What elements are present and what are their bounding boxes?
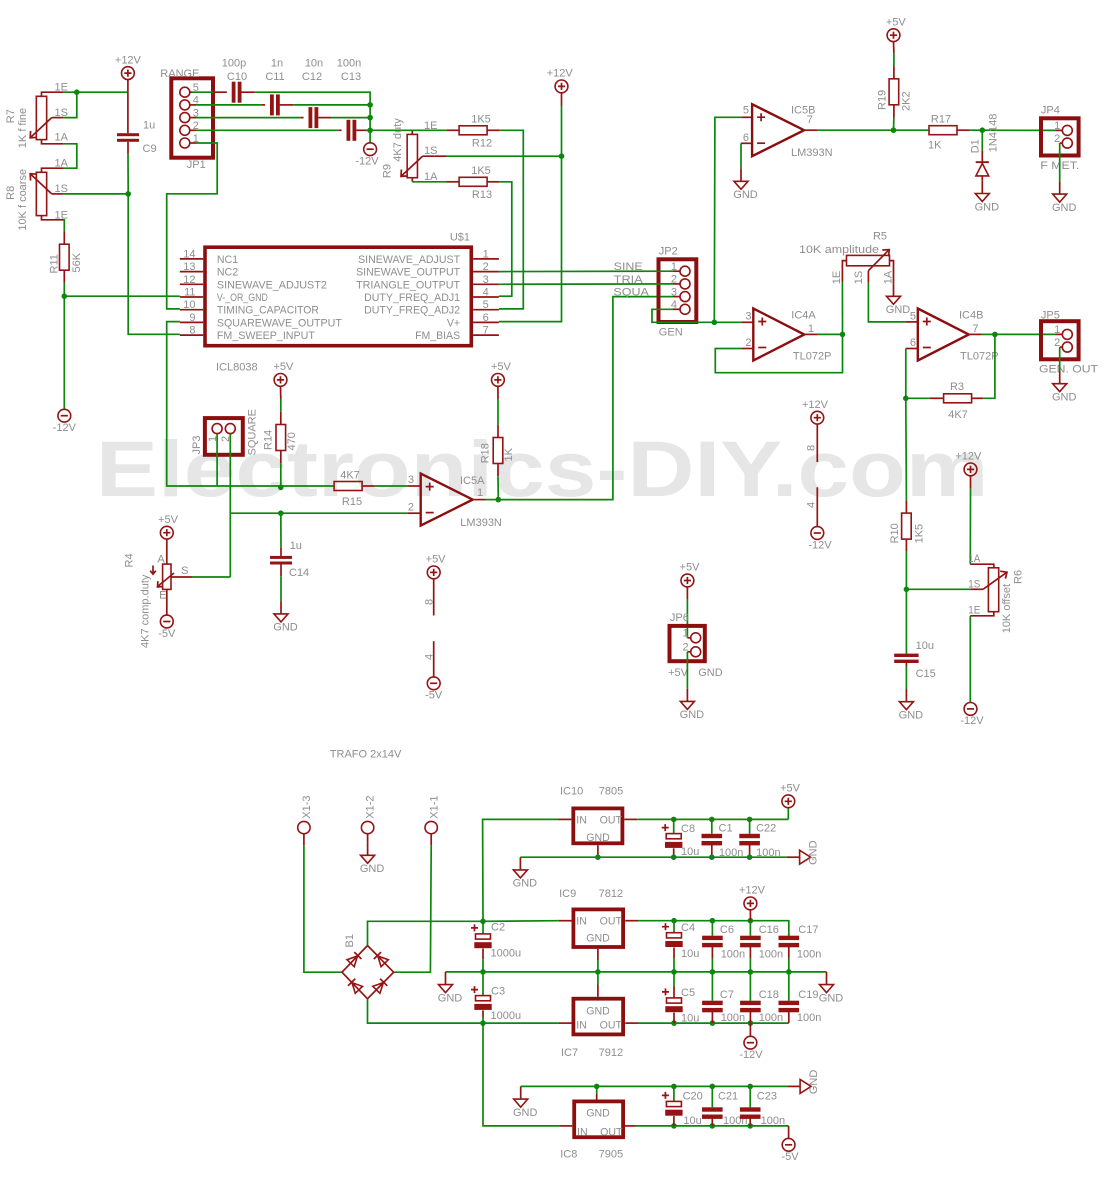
node junction GEN <box>712 320 718 326</box>
svg-text:IC7: IC7 <box>561 1047 578 1059</box>
JP2 pad pin 4 <box>680 304 690 314</box>
capacitor C3 1000u <box>482 972 484 996</box>
connector JP4 F MET. <box>1041 118 1079 155</box>
svg-text:+5V: +5V <box>426 554 447 566</box>
svg-text:FM_SWEEP_INPUT: FM_SWEEP_INPUT <box>217 330 316 342</box>
svg-text:JP3: JP3 <box>191 436 203 455</box>
B1 diode minus-AC2 <box>373 979 387 993</box>
svg-text:3: 3 <box>483 274 489 286</box>
svg-text:SINE: SINE <box>614 261 643 273</box>
svg-text:R11: R11 <box>49 254 61 273</box>
resistor R14 470 <box>280 386 282 399</box>
svg-text:+12V: +12V <box>547 68 574 80</box>
capacitor C2 1000u <box>482 921 484 934</box>
wire C11 to -12V rail <box>293 104 370 106</box>
svg-text:+12V: +12V <box>739 885 766 897</box>
svg-text:10K offset: 10K offset <box>1001 584 1013 633</box>
watermark Electronics-DIY.com <box>96 425 988 513</box>
wire R4-S to JP3 pin2 rail <box>192 576 230 578</box>
node junction C3 bottom <box>480 1020 486 1026</box>
JP3 pad pin 2 <box>225 424 235 434</box>
B1 diode AC1-plus <box>347 952 361 967</box>
ground GND (IC8 rail left) <box>520 1086 522 1099</box>
svg-text:-12V: -12V <box>960 715 984 727</box>
svg-text:1u: 1u <box>290 540 302 552</box>
JP1 pin 2 wire to C13 <box>190 129 196 131</box>
svg-text:GND: GND <box>586 832 610 844</box>
svg-text:1N4148: 1N4148 <box>987 114 999 153</box>
svg-text:100n: 100n <box>721 1012 745 1024</box>
svg-text:GND: GND <box>680 709 705 721</box>
potentiometer R5 10K amplitude <box>842 261 846 282</box>
connector JP6 <box>686 600 688 638</box>
node junction R10/R6-1S/C15 <box>904 587 910 593</box>
svg-text:R4: R4 <box>124 553 136 567</box>
svg-text:1: 1 <box>1054 324 1060 336</box>
svg-text:C6: C6 <box>720 924 734 936</box>
resistor R13 1K5 <box>447 181 460 183</box>
U$1 pin 5 DUTY_FREQ_ADJ2 <box>473 309 499 311</box>
capacitor C8 10u <box>671 817 677 823</box>
svg-text:A: A <box>157 554 165 566</box>
capacitor C16 100n <box>749 921 751 936</box>
svg-text:4: 4 <box>806 502 818 508</box>
bridge rectifier B1 body <box>342 946 394 999</box>
capacitor C7 100n <box>710 1020 716 1026</box>
connector JP1 RANGE <box>171 78 213 157</box>
JP1 pad pin 2 <box>180 125 190 135</box>
svg-text:1: 1 <box>1054 120 1060 132</box>
svg-text:C22: C22 <box>756 822 776 834</box>
svg-text:D1: D1 <box>970 139 982 153</box>
svg-text:GND: GND <box>1052 392 1077 404</box>
svg-text:GND: GND <box>360 863 385 875</box>
capacitor C9 1u <box>127 92 129 133</box>
svg-text:RANGE: RANGE <box>160 68 199 80</box>
wire R9-1A to R13 <box>412 181 446 183</box>
svg-text:1: 1 <box>477 487 483 499</box>
svg-text:1E: 1E <box>55 210 68 222</box>
wire D1 node to JP4 pin 1 <box>982 129 1055 131</box>
svg-text:C14: C14 <box>289 567 309 579</box>
U$1 pin 12 SINEWAVE_ADJUST2 <box>180 283 203 285</box>
svg-text:-5V: -5V <box>425 690 443 702</box>
svg-text:1K5: 1K5 <box>471 165 491 177</box>
svg-text:JP2: JP2 <box>659 246 678 258</box>
svg-text:SINEWAVE_ADJUST: SINEWAVE_ADJUST <box>358 254 461 266</box>
svg-text:2: 2 <box>745 337 751 349</box>
wire IC5B out to R17 <box>894 129 930 131</box>
svg-text:+5V: +5V <box>780 783 801 795</box>
power +5V (IC5 supply pin 8) <box>427 566 440 579</box>
svg-text:TRAFO 2x14V: TRAFO 2x14V <box>330 748 402 760</box>
wire R8-1S to C9 node <box>64 193 128 195</box>
svg-text:5: 5 <box>910 310 916 322</box>
svg-text:C12: C12 <box>302 71 322 83</box>
wire R7-1A to R8-1A <box>64 144 77 168</box>
JP1 pin 1 wire down to U$1 pin 10 net <box>190 142 196 144</box>
ground GND (IC10 rail left) <box>519 857 521 870</box>
svg-text:C20: C20 <box>683 1091 703 1103</box>
wire IC7 OUT to -12V and caps <box>638 1022 789 1024</box>
svg-text:100n: 100n <box>761 1115 785 1127</box>
svg-text:LM393N: LM393N <box>460 517 502 529</box>
ground GND (C15) <box>905 689 907 702</box>
svg-text:8: 8 <box>189 325 195 337</box>
svg-text:SQUAREWAVE_OUTPUT: SQUAREWAVE_OUTPUT <box>217 317 343 329</box>
IC9 IN pin <box>559 920 572 922</box>
capacitor C14 1u <box>280 513 282 547</box>
svg-text:4: 4 <box>424 654 436 660</box>
svg-text:GND: GND <box>886 304 911 316</box>
wire junction crossing to 486 rail <box>280 486 282 487</box>
power +12V (supply output) <box>748 918 754 924</box>
svg-text:100n: 100n <box>337 57 361 69</box>
U$1 pin 4 DUTY_FREQ_ADJ1 <box>473 296 499 298</box>
ground GND (R5-1A) <box>893 284 895 297</box>
svg-text:4K7: 4K7 <box>948 409 968 421</box>
svg-text:+5V: +5V <box>158 514 179 526</box>
resistor R15 4K7 <box>333 485 334 487</box>
JP1 pad pin 5 <box>180 87 190 97</box>
svg-text:NC2: NC2 <box>217 267 238 279</box>
wire square rail to R15 <box>217 485 333 487</box>
capacitor C18 100n <box>748 1020 754 1026</box>
svg-text:4: 4 <box>483 287 489 299</box>
svg-text:6: 6 <box>910 337 916 349</box>
svg-text:C15: C15 <box>916 668 936 680</box>
diode D1 1N4148 <box>981 130 983 150</box>
regulator IC7 7912 <box>573 999 623 1035</box>
svg-text:R13: R13 <box>472 189 492 201</box>
wire C10 to -12V corner <box>255 92 370 105</box>
U$1 pin 9 SQUAREWAVE_OUTPUT <box>180 321 203 323</box>
svg-text:470: 470 <box>286 432 298 450</box>
capacitor C1 100n <box>709 817 715 823</box>
capacitor C13 100n <box>338 129 341 131</box>
power +5V (supply output) <box>787 808 789 820</box>
svg-text:+5V: +5V <box>886 16 907 28</box>
ground GND (C14) <box>280 601 282 614</box>
wire GEN node to IC4A pin 3 <box>714 321 741 323</box>
svg-text:C18: C18 <box>759 989 779 1001</box>
svg-text:C3: C3 <box>491 985 505 997</box>
power -12V (bottom left) <box>63 408 65 410</box>
node junction C11/-12V rail <box>367 102 373 108</box>
power +12V (R6) <box>964 463 977 476</box>
JP6 pad pin 1 <box>691 633 701 643</box>
svg-text:C10: C10 <box>227 71 247 83</box>
svg-text:TRIANGLE_OUTPUT: TRIANGLE_OUTPUT <box>356 279 461 291</box>
IC8 GND rail <box>521 1085 788 1087</box>
svg-text:1S: 1S <box>55 107 68 119</box>
svg-text:1K f fine: 1K f fine <box>17 108 29 148</box>
node junction R11/-12V <box>62 293 68 299</box>
svg-text:GND: GND <box>586 1006 610 1018</box>
wire B1 plus output to C2/IC9 <box>368 921 559 946</box>
svg-text:IN: IN <box>576 814 587 826</box>
power -12V (C10-C13) <box>364 143 377 156</box>
B1 diode AC2-plus <box>374 952 388 967</box>
svg-text:GND: GND <box>586 933 610 945</box>
node junction R3/IC4B- <box>903 396 909 402</box>
capacitor C22 100n <box>747 817 753 823</box>
svg-text:5: 5 <box>483 299 489 311</box>
svg-text:7: 7 <box>483 325 489 337</box>
svg-text:10u: 10u <box>916 640 934 652</box>
power +5V (R19) <box>887 29 900 42</box>
svg-text:TL072P: TL072P <box>793 351 832 363</box>
svg-text:C1: C1 <box>719 822 733 834</box>
potentiometer R8 10K f coarse <box>42 168 64 172</box>
svg-text:C4: C4 <box>681 922 695 934</box>
wire U$1 pin2 SINE to JP2 pin 1 <box>499 270 673 272</box>
capacitor C20 10u <box>671 1123 677 1129</box>
power +12V (top left) <box>122 67 135 80</box>
wire JP3 pin1 down to square rail <box>216 434 218 486</box>
mid GND rail <box>446 971 827 973</box>
node junction R14/square rail <box>278 485 284 491</box>
capacitor C21 100n <box>710 1123 716 1129</box>
power +5V (R4) <box>160 526 173 539</box>
power -12V (IC4 supply pin 4) <box>816 487 818 526</box>
wire R8-1E down to R11 <box>63 220 66 232</box>
svg-text:-5V: -5V <box>158 628 176 640</box>
JP6 pin 2 wire to GND <box>687 651 690 653</box>
svg-text:4K7 comp.duty: 4K7 comp.duty <box>140 574 152 648</box>
svg-text:100n: 100n <box>721 949 745 961</box>
svg-text:V+: V+ <box>447 317 460 329</box>
B1 diode minus-AC1 <box>348 979 362 994</box>
power -5V (IC5 supply pin 4) <box>433 641 435 677</box>
IC8 OUT pin <box>623 1125 636 1127</box>
svg-text:1: 1 <box>808 323 814 335</box>
svg-text:1n: 1n <box>271 57 283 69</box>
svg-text:GND: GND <box>586 1107 610 1119</box>
svg-text:R17: R17 <box>931 113 951 125</box>
svg-text:NC1: NC1 <box>217 254 238 266</box>
IC7 GND pin <box>597 985 599 997</box>
svg-text:R9: R9 <box>382 164 394 178</box>
connector JP2 GEN <box>659 259 697 322</box>
svg-text:1u: 1u <box>143 120 155 132</box>
JP1 pad pin 3 <box>180 113 190 123</box>
svg-text:2: 2 <box>483 261 489 273</box>
svg-text:GND: GND <box>513 878 538 890</box>
IC4A pin 2 feedback wire <box>741 348 753 350</box>
svg-text:C19: C19 <box>798 989 818 1001</box>
capacitor C19 100n <box>788 972 790 1001</box>
svg-text:10u: 10u <box>681 846 699 858</box>
capacitor C12 10n <box>300 117 303 119</box>
svg-text:IC4A: IC4A <box>791 309 816 321</box>
wire junction to R6 wiper <box>906 588 970 590</box>
svg-text:R18: R18 <box>480 443 492 463</box>
svg-text:JP4: JP4 <box>1041 105 1060 117</box>
wire R9-1S to +12V rail <box>434 155 446 157</box>
X1-3 wire to bridge <box>303 834 305 846</box>
resistor R17 1K <box>928 129 930 131</box>
IC8 IN pin <box>560 1125 573 1127</box>
svg-text:6: 6 <box>743 132 749 144</box>
svg-text:TIMING_CAPACITOR: TIMING_CAPACITOR <box>217 305 319 317</box>
capacitor C17 100n <box>788 934 790 936</box>
svg-text:R8: R8 <box>5 186 17 200</box>
svg-text:JP1: JP1 <box>187 159 206 171</box>
svg-text:10u: 10u <box>681 1013 699 1025</box>
svg-text:1E: 1E <box>831 271 843 284</box>
node junction IC9 GND/mid rail <box>595 969 601 975</box>
svg-text:7812: 7812 <box>599 888 623 900</box>
svg-text:GND: GND <box>819 992 844 1004</box>
potentiometer R7 1K f fine <box>42 92 64 96</box>
svg-text:E: E <box>159 589 166 601</box>
capacitor C23 100n <box>747 1123 753 1129</box>
IC8 GND pin <box>596 1094 598 1100</box>
power +5V (R18) <box>492 374 505 387</box>
svg-text:C8: C8 <box>681 823 695 835</box>
X1-1 wire to bridge <box>430 834 432 846</box>
svg-text:SINEWAVE_ADJUST2: SINEWAVE_ADJUST2 <box>217 279 327 291</box>
svg-text:C9: C9 <box>143 143 157 155</box>
svg-text:-12V: -12V <box>355 156 379 168</box>
capacitor C4 10u <box>671 918 677 924</box>
JP2 pad pin 2 <box>680 279 690 289</box>
svg-text:100p: 100p <box>222 57 246 69</box>
ground GND (mid rail right) <box>826 972 828 985</box>
wire R15 to IC5A pin 3 <box>375 485 408 487</box>
svg-text:1S: 1S <box>853 271 865 284</box>
ground GND (bridge rail) <box>445 972 447 985</box>
svg-text:V-_OR_GND: V-_OR_GND <box>217 292 268 304</box>
JP1 pin 4 wire to C11 <box>190 104 196 106</box>
node junction C9/R8-1S <box>125 191 131 197</box>
JP2 pad pin 1 <box>680 266 690 276</box>
svg-text:10: 10 <box>183 299 195 311</box>
svg-text:+12V: +12V <box>802 399 829 411</box>
U$1 pin 8 FM_SWEEP_INPUT <box>180 334 203 336</box>
svg-text:SINEWAVE_OUTPUT: SINEWAVE_OUTPUT <box>356 267 461 279</box>
svg-text:-12V: -12V <box>53 422 77 434</box>
svg-text:100n: 100n <box>797 949 821 961</box>
U$1 pin 10 TIMING_CAPACITOR <box>180 309 203 311</box>
JP5 pad pin 2 <box>1062 342 1072 352</box>
IC10 GND pin <box>597 845 599 857</box>
svg-text:GND: GND <box>975 201 1000 213</box>
JP3 pad pin 1 <box>212 424 222 434</box>
IC10 IN pin <box>559 818 572 820</box>
potentiometer R6 10K offset <box>970 564 994 568</box>
svg-text:JP5: JP5 <box>1041 309 1060 321</box>
svg-text:OUT: OUT <box>600 916 623 928</box>
U$1 pin 11 V-_OR_GND <box>180 296 203 298</box>
wire IC5A- rail <box>230 512 408 514</box>
svg-text:GND: GND <box>698 667 723 679</box>
IC5B pin 6 wire to GND <box>741 142 752 144</box>
svg-text:+5V: +5V <box>273 361 294 373</box>
JP1 pad pin 4 <box>180 100 190 110</box>
svg-text:DUTY_FREQ_ADJ1: DUTY_FREQ_ADJ1 <box>364 292 460 304</box>
svg-text:SQUA: SQUA <box>613 287 649 299</box>
svg-text:100n: 100n <box>756 847 780 859</box>
ground GND (IC10 rail right) <box>787 856 800 858</box>
svg-text:C13: C13 <box>341 71 361 83</box>
svg-text:IC10: IC10 <box>560 786 583 798</box>
power +5V (R14) <box>274 374 287 387</box>
node junction IC8 GND <box>594 1084 600 1090</box>
U$1 pin 14 NC1 <box>180 258 203 260</box>
wire C12 to -12V rail <box>332 117 371 119</box>
svg-text:100n: 100n <box>719 847 743 859</box>
svg-text:FM_BIAS: FM_BIAS <box>415 330 460 342</box>
capacitor C15 10u <box>905 589 907 653</box>
svg-text:X1-3: X1-3 <box>301 795 313 818</box>
svg-text:R14: R14 <box>263 430 275 450</box>
svg-text:1000u: 1000u <box>491 1010 522 1022</box>
svg-text:8: 8 <box>806 445 818 451</box>
IC4B pin 6 wire <box>906 348 918 350</box>
ground GND (D1) <box>981 181 983 194</box>
U$1 pin 3 TRIANGLE_OUTPUT <box>473 283 499 285</box>
wire U$1 pin 9 net down to IC5A input rail <box>167 322 217 486</box>
node junction R9-1S/+12V <box>559 153 565 159</box>
IC4A output wire <box>804 333 817 335</box>
node junction C2/C3 mid rail <box>480 969 486 975</box>
svg-text:GND: GND <box>513 1107 538 1119</box>
op-amp IC4B TL072P <box>906 321 918 323</box>
svg-text:1: 1 <box>483 248 489 260</box>
wire R12 to U$1 pin 5 <box>499 130 523 309</box>
connector JP3 SQUARE <box>205 418 243 455</box>
svg-text:+12V: +12V <box>955 451 982 463</box>
svg-text:1A: 1A <box>882 270 894 284</box>
svg-text:9: 9 <box>189 312 195 324</box>
power -12V (R6) <box>964 703 977 716</box>
U$1 pin 7 FM_BIAS <box>473 334 499 336</box>
svg-text:1A: 1A <box>55 132 69 144</box>
svg-text:5: 5 <box>743 105 749 117</box>
node junction IC5B out/R19 <box>891 127 897 133</box>
U$1 pin 2 SINEWAVE_OUTPUT <box>473 271 499 273</box>
regulator IC8 7905 <box>574 1101 623 1137</box>
svg-text:X1-2: X1-2 <box>365 795 377 818</box>
svg-text:+5V: +5V <box>668 667 689 679</box>
JP4 pad pin 2 <box>1062 138 1072 148</box>
svg-text:1A: 1A <box>55 158 69 170</box>
JP1 pin 5 lead to C10 <box>190 91 193 93</box>
svg-text:-5V: -5V <box>781 1151 799 1163</box>
svg-text:C5: C5 <box>681 987 695 999</box>
node junction IC4B out <box>992 332 998 338</box>
SQUA wire into JP2 pin 3 <box>673 296 680 298</box>
svg-text:10K f coarse: 10K f coarse <box>17 169 29 231</box>
svg-text:1000u: 1000u <box>491 948 522 960</box>
svg-text:GEN: GEN <box>659 327 683 339</box>
wire R5-1S down to IC4B pin 5 <box>868 283 905 322</box>
svg-text:R5: R5 <box>873 230 887 242</box>
wire +12V down to R6-1A <box>969 489 971 565</box>
capacitor C11 1n <box>262 104 265 106</box>
node junction C12/-12V rail <box>367 115 373 121</box>
power +5V (JP6) <box>681 574 694 587</box>
svg-text:2: 2 <box>408 502 414 514</box>
ground GND (JP6) <box>686 689 688 702</box>
wire +12V to C9 and R7 rail <box>127 80 129 93</box>
pad X1-3 <box>298 821 310 833</box>
svg-text:3: 3 <box>745 310 751 322</box>
svg-text:7905: 7905 <box>599 1149 623 1161</box>
svg-text:2: 2 <box>1054 133 1060 145</box>
